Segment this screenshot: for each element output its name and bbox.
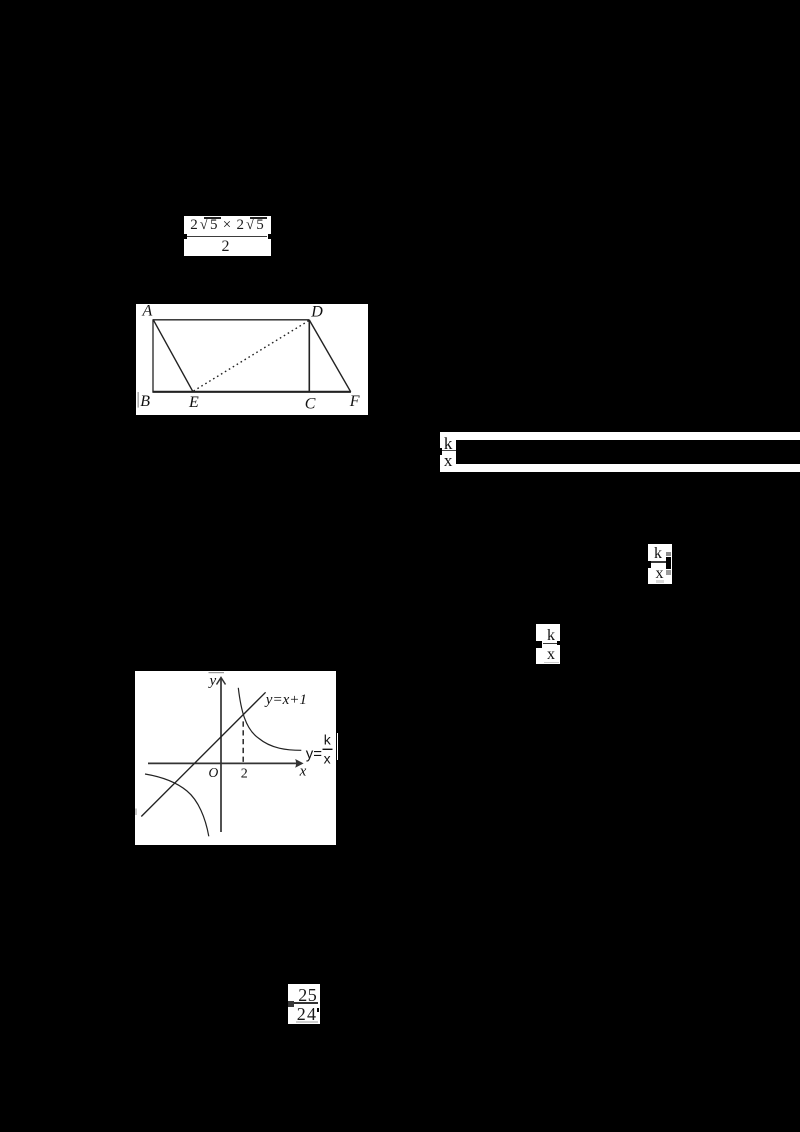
left margin tick <box>137 392 139 408</box>
svg-text:F: F <box>349 393 360 410</box>
2524 bottom light strip <box>296 1021 319 1023</box>
base BF <box>152 391 351 393</box>
white sliver right of graph <box>337 733 339 760</box>
svg-text:k: k <box>324 731 332 747</box>
svg-text:A: A <box>142 304 153 319</box>
svg-text:C: C <box>305 396 316 413</box>
kx3 left notch <box>536 641 543 648</box>
F1 numerator 2sqrt5 x 2sqrt5 <box>184 216 272 234</box>
svg-text:D: D <box>310 304 323 320</box>
strip fraction x <box>440 456 456 468</box>
F1 fraction bar <box>187 236 268 237</box>
side AB <box>152 319 154 392</box>
kx3 bottom light strip <box>544 662 559 664</box>
F1 right notch <box>268 234 272 240</box>
formula F1: (2*sqrt5 x 2*sqrt5)/2 <box>184 216 271 257</box>
graph background <box>135 671 336 845</box>
segment AE <box>153 320 193 392</box>
svg-text:E: E <box>188 394 199 411</box>
dashed line x=2 <box>242 721 244 764</box>
fraction 25/24 <box>288 984 320 1024</box>
svg-text:y: y <box>208 673 217 689</box>
hyperbola branch Q3 <box>145 774 209 836</box>
kx2 gray top right <box>666 552 671 556</box>
faint line above y label <box>209 672 225 674</box>
small k/x box (left lower) <box>536 624 560 664</box>
kx3 right notch <box>557 641 560 645</box>
line y=x+1 <box>141 692 265 816</box>
F1 left notch <box>184 234 187 239</box>
x axis <box>148 762 302 764</box>
25 numerator <box>292 989 323 1003</box>
side DC <box>308 320 310 392</box>
kx3 fraction bar <box>543 643 558 645</box>
svg-text:x: x <box>299 763 307 779</box>
fraction bar of k/x label <box>323 748 333 750</box>
svg-text:B: B <box>140 393 150 410</box>
side AD <box>153 319 309 321</box>
kx2 letter k <box>648 547 668 560</box>
y axis <box>220 679 222 833</box>
dotted segment ED <box>194 321 310 392</box>
kx2 gray mid right <box>666 570 671 575</box>
2524 fraction bar <box>293 1002 319 1004</box>
24 denominator <box>292 1008 323 1022</box>
kx3 letter x <box>541 650 561 661</box>
segment DF <box>309 320 350 392</box>
small k/x box (right) <box>648 544 672 584</box>
2524 right tick <box>317 1008 319 1012</box>
figure background <box>136 304 368 415</box>
strip left mark <box>439 448 441 456</box>
F1 denominator 2 <box>184 239 267 255</box>
graph of y=x+1 and y=k/x <box>135 671 336 845</box>
kx2 light bottom strip <box>656 580 664 583</box>
svg-text:2: 2 <box>241 766 248 781</box>
kx2 fraction bar <box>651 561 666 563</box>
svg-text:x: x <box>324 751 331 767</box>
kx2 left notch <box>648 561 651 568</box>
2524 left gray notch <box>288 1001 294 1008</box>
y axis arrowhead <box>217 678 226 685</box>
strip fraction k <box>440 437 456 450</box>
strip black box <box>456 440 800 464</box>
svg-text:y=: y= <box>306 746 323 763</box>
graph left margin tick <box>135 809 137 816</box>
hyperbola branch Q1 <box>238 688 301 751</box>
x axis arrowhead <box>295 759 303 768</box>
kx3 letter k <box>541 629 561 642</box>
kx2 right notch <box>666 557 671 569</box>
svg-text:O: O <box>209 765 219 780</box>
kx2 letter x <box>650 569 670 580</box>
svg-text:y=x+1: y=x+1 <box>264 692 307 708</box>
redacted strip with k/x <box>440 432 800 472</box>
geometry figure ABCDEF <box>136 304 368 415</box>
strip fraction bar <box>442 450 456 451</box>
